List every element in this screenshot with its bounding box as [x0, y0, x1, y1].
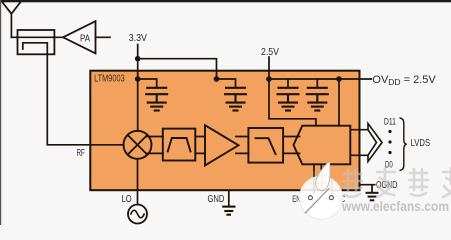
svg-text:PA: PA: [80, 32, 90, 44]
svg-text:LO: LO: [122, 193, 132, 205]
svg-text:RF: RF: [77, 147, 85, 159]
svg-text:LVDS: LVDS: [411, 137, 431, 149]
svg-text:LTM9003: LTM9003: [94, 74, 125, 85]
svg-text:OVDD = 2.5V: OVDD = 2.5V: [372, 74, 436, 87]
svg-text:3.3V: 3.3V: [129, 32, 147, 44]
svg-text:2.5V: 2.5V: [261, 46, 279, 58]
svg-text:D11: D11: [384, 117, 396, 128]
svg-text:GND: GND: [208, 193, 225, 205]
svg-text:www.elecfans.com: www.elecfans.com: [341, 199, 449, 214]
